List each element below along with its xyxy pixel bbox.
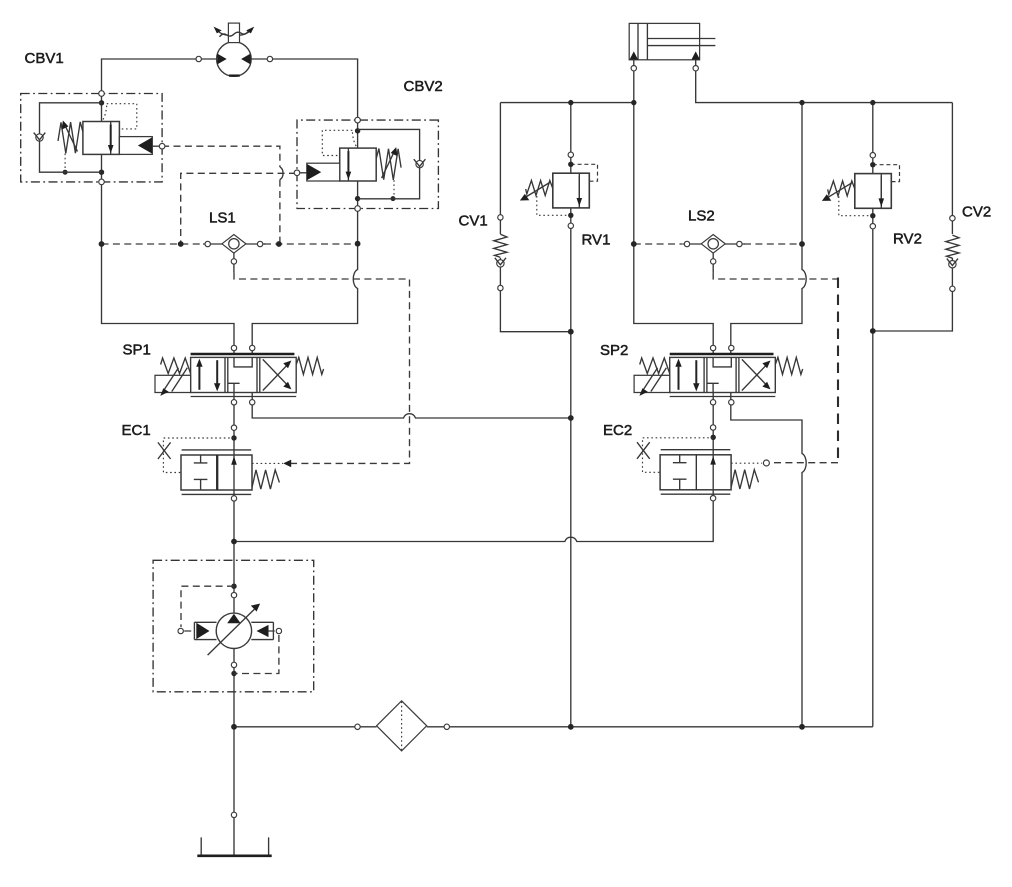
RV1 port circle bottom <box>568 223 573 228</box>
node bottom bus SP2 tank tee <box>799 724 805 730</box>
motor M1 circle <box>217 42 252 77</box>
CV1 port circle top <box>498 215 503 220</box>
CBV1 spring pilot dotted <box>64 154 66 173</box>
node CBV1 spring pilot <box>63 170 68 175</box>
motor port circle right <box>267 56 272 61</box>
node CBV2 spring pilot <box>391 196 396 201</box>
SP2 solenoid box <box>634 375 670 392</box>
cylinder piston <box>638 23 647 59</box>
SP1 right box X arrows <box>263 359 289 390</box>
node LS2 right <box>799 241 805 247</box>
CV2 seat <box>947 259 958 266</box>
EC1 body <box>181 455 252 490</box>
CV2 port circle top <box>950 216 955 221</box>
filter port circle right <box>444 724 449 729</box>
pilot LS2 output horizontal <box>713 273 838 279</box>
CBV1 spring adjust arrow <box>65 126 77 152</box>
CBV2 port circle bottom <box>355 206 361 212</box>
LS2 port circle right <box>737 241 742 246</box>
wire SP1 B-port tank line to RV1 line (hop up over dashed x409.5) <box>252 393 571 419</box>
RV2 arrow <box>880 176 882 199</box>
LS2 port circle left <box>684 241 689 246</box>
RV1 arrow <box>578 176 580 199</box>
motor rotation arrow right <box>240 31 250 35</box>
CBV2 enclosure dash-dot box <box>297 120 438 208</box>
EC2 pilot dotted right <box>731 462 762 464</box>
SP1 port circle B top <box>250 345 255 350</box>
svg-text:RV2: RV2 <box>893 231 922 248</box>
RV1 body <box>553 173 590 208</box>
svg-text:CV1: CV1 <box>459 213 488 230</box>
EC2 flow arrow head <box>710 456 716 465</box>
SP2 port circle B bottom <box>729 400 734 405</box>
RV2 divider <box>880 174 882 209</box>
pump variable arrow <box>208 609 255 655</box>
node LS1 right on B-line <box>355 241 361 247</box>
CBV1 pilot triangle <box>138 137 152 153</box>
LS1 diamond <box>222 235 246 254</box>
node EC1 pilot tap <box>231 435 236 440</box>
svg-text:CV2: CV2 <box>962 204 991 221</box>
wire left cylinder bus <box>500 102 633 104</box>
filter diamond <box>377 701 427 751</box>
wire bottom tank bus with filter <box>234 726 873 728</box>
pilot LS2 output heavy dashed vertical <box>837 278 839 463</box>
wire SP2 B-port tank line down to bottom bus (hop right over dashed y463) <box>731 393 806 727</box>
CBV1 port circle pilot <box>159 143 165 149</box>
RV1 pilot dotted left <box>537 196 568 215</box>
SP1 solenoid slashes <box>163 368 187 392</box>
SP2 body <box>670 357 776 392</box>
SP1 left box down arrow <box>216 360 218 385</box>
svg-text:RV1: RV1 <box>582 232 611 249</box>
CBV1 spring <box>58 122 83 153</box>
CBV2 check seat <box>414 159 426 166</box>
LS1 ball <box>229 239 239 249</box>
CV1 ball <box>497 260 504 267</box>
EC1 pilot dotted right <box>252 462 283 464</box>
RV2 node top <box>870 162 875 167</box>
node right bus RV2 tee <box>870 100 875 105</box>
RV1 node top <box>568 162 573 167</box>
CBV1 port circle top <box>99 91 105 97</box>
EC1 divider <box>216 455 218 490</box>
wire SP1 A-port down through EC1 and pump to tank <box>233 393 235 856</box>
pump left actuator triangle <box>196 623 209 639</box>
EC2 port circle top <box>710 425 715 430</box>
CBV2 spring <box>376 149 401 180</box>
pump outlet triangle <box>227 614 240 624</box>
pilot LS1 dashed line <box>102 243 358 245</box>
CBV1 pilot stub <box>152 145 162 147</box>
node left bus cylinder tee <box>631 100 636 105</box>
motor port circle left <box>196 56 201 61</box>
node LS2 left <box>631 241 637 247</box>
RV1 spring adjust arrow <box>525 182 551 198</box>
node CBV2 upper branch <box>355 128 360 133</box>
node LS1 CBV2 pilot tee <box>178 241 184 247</box>
svg-text:EC2: EC2 <box>603 422 632 439</box>
CBV2 valve body <box>340 148 377 181</box>
LS1 port circle bottom <box>231 259 236 264</box>
node CBV1 lower branch <box>99 170 104 175</box>
node LS1 left on A-line <box>99 241 105 247</box>
EC1 orifice X <box>158 442 171 459</box>
CV2 port circle bottom <box>950 286 955 291</box>
LS2 port circle bottom <box>711 259 716 264</box>
RV2 node bottom <box>870 213 875 218</box>
CBV1 valve arrow <box>110 125 112 147</box>
wire RV2 vertical line <box>872 103 874 727</box>
SP2 dividers <box>704 357 739 392</box>
LS1 port circle left <box>205 241 210 246</box>
CBV1 check seat <box>34 133 46 140</box>
SP1 body <box>191 357 297 392</box>
SP2 port circle A bottom <box>710 400 715 405</box>
svg-text:CBV1: CBV1 <box>25 50 64 67</box>
SP2 left box up arrow <box>678 365 680 390</box>
LS2 stubs <box>682 244 745 273</box>
node CBV2 lower branch <box>355 196 360 201</box>
RV2 spring <box>828 181 855 196</box>
pump circle <box>216 613 251 648</box>
SP2 solenoid slashes <box>642 368 666 392</box>
SP2 top thick bar <box>670 353 774 356</box>
cylinder port arrow left <box>630 51 638 59</box>
pump right actuator box <box>251 622 273 639</box>
node CV1 to RV1 line <box>568 329 574 335</box>
node EC2 pilot tap <box>711 435 716 440</box>
EC2 divider <box>695 455 697 490</box>
SP1 port circle B bottom <box>250 400 255 405</box>
SP2 left box down arrow <box>695 360 697 385</box>
CBV2 bypass branch wire <box>358 129 420 198</box>
CBV2 pilot actuator box <box>307 163 340 181</box>
node right bus SP2B tee <box>799 100 804 105</box>
SP1 top thick bar <box>191 353 295 356</box>
SP1 port circle A bottom <box>231 400 236 405</box>
tank walls <box>201 837 268 855</box>
pump port circle bottom <box>231 662 236 667</box>
CBV1 valve divider <box>110 122 112 155</box>
pump left actuator box <box>194 622 216 639</box>
svg-text:LS1: LS1 <box>209 210 236 227</box>
EC2 body <box>660 455 731 490</box>
wire RV1 vertical line bus to bottom bus <box>570 103 572 727</box>
EC1 spring <box>252 470 279 489</box>
CBV2 internal pilot dotted <box>322 130 356 155</box>
CBV2 valve arrow <box>347 151 349 173</box>
node bottom bus pump tee <box>231 724 237 730</box>
cylinder port circle right <box>693 66 698 71</box>
EC1 overlines <box>182 450 252 495</box>
CBV2 valve divider <box>347 148 349 181</box>
SP1 bottom thin bar <box>191 396 297 398</box>
CBV2 pilot stub <box>297 172 307 174</box>
SP1 left spring <box>161 358 191 374</box>
motor drain mark <box>229 74 240 76</box>
svg-text:LS2: LS2 <box>688 208 715 225</box>
cylinder body <box>629 23 699 59</box>
wire cylinder rod-port right bus <box>696 60 953 103</box>
CBV2 port circle pilot <box>294 170 300 176</box>
RV2 pilot dashes right <box>873 165 900 182</box>
pump right actuator triangle <box>257 625 269 637</box>
LS2 diamond <box>701 235 725 254</box>
CBV1 port circle bottom <box>99 179 105 185</box>
node pump top pilot <box>231 584 236 589</box>
EC2 blocked ports <box>673 455 687 490</box>
SP1 centre blocked port <box>228 383 239 392</box>
SP2 bottom thin bar <box>670 396 776 398</box>
SP2 port circle B top <box>729 345 734 350</box>
CBV1 enclosure dash-dot box <box>21 94 162 182</box>
EC2 pilot dotted left <box>643 438 714 473</box>
svg-text:SP1: SP1 <box>123 342 151 359</box>
node CBV1 upper branch <box>99 100 104 105</box>
tank port circle <box>231 812 236 817</box>
wire motor-right to CBV2 to SP1 port B feed (hop left at y279) <box>251 59 357 354</box>
wire motor-left to CBV1 to SP1 port A feed <box>102 59 235 354</box>
EC1 port circle bottom <box>231 496 236 501</box>
CBV1 pilot actuator box <box>119 137 152 155</box>
RV2 port circle bottom <box>870 224 875 229</box>
pilot CBV1 from SP1-B line (hop right over y173.3) <box>162 146 280 244</box>
SP2 centre bridge <box>713 357 731 367</box>
SP1 port circle A top <box>231 345 236 350</box>
node EC bus left <box>231 539 237 545</box>
node left bus RV1 tee <box>568 100 573 105</box>
motor shaft wave <box>220 31 249 37</box>
pump enclosure dash-dot box <box>153 560 314 692</box>
node SP1 tank tee <box>568 415 574 421</box>
SP2 port circle A top <box>710 345 715 350</box>
RV1 spring <box>526 181 553 196</box>
RV2 spring adjust arrow <box>827 182 853 198</box>
RV1 divider <box>578 173 580 208</box>
CBV1 valve body <box>83 122 120 155</box>
SP1 right spring <box>296 357 323 374</box>
tank bottom <box>197 854 271 857</box>
EC2 overlines <box>661 450 731 495</box>
EC2 orifice X <box>637 442 650 459</box>
pilot to EC2 spring side <box>770 462 838 464</box>
pilot LS1 output to EC1 spring side <box>234 273 410 464</box>
wire SP2 A-port down through EC2 then left along EC bus to pump line (hop up over RV1 line) <box>234 393 713 542</box>
RV1 node bottom <box>568 213 573 218</box>
CV1 spring <box>494 234 507 257</box>
pump port circle top <box>231 592 236 597</box>
CBV1 check ball <box>36 134 43 141</box>
CBV2 port circle top <box>355 117 361 123</box>
SP2 solenoid arrow head <box>639 388 647 396</box>
wire cylinder cap-port down to SP2 port A feed <box>634 60 713 354</box>
motor left triangle <box>217 54 226 65</box>
SP1 solenoid arrow head <box>160 388 168 396</box>
CV1 seat <box>495 258 506 265</box>
SP2 right box X arrows <box>742 359 768 390</box>
pilot LS2 dashed line <box>634 243 802 245</box>
SP2 left spring <box>640 358 670 374</box>
motor shaft <box>228 23 239 42</box>
pump pilot dashed top-left <box>181 586 234 627</box>
RV1 pilot dashes right <box>571 164 598 181</box>
pump pilot stubs <box>184 630 275 632</box>
LS1 port circle right <box>257 241 262 246</box>
pump pilot dashed bottom-right <box>234 635 279 674</box>
EC2 spring <box>731 470 758 489</box>
svg-text:CBV2: CBV2 <box>404 78 443 95</box>
RV1 port circle top <box>568 152 573 157</box>
CBV2 check ball <box>416 160 423 167</box>
EC1 flow arrow head <box>231 456 237 465</box>
LS1 stubs <box>203 244 266 273</box>
wire CV1 branch <box>500 103 570 332</box>
wire rod-bus down to SP2 port B feed (hop right at y279) <box>731 103 806 354</box>
pump port circle left pilot <box>178 628 183 633</box>
filter element dotted <box>401 702 403 751</box>
CV2 spring <box>946 235 959 258</box>
CBV1 bypass branch wire <box>40 103 102 172</box>
CBV1 internal pilot dotted <box>103 104 137 129</box>
EC1 port circle top <box>231 425 236 430</box>
cylinder port arrow right <box>692 51 700 59</box>
EC2 port circle bottom <box>710 495 715 500</box>
RV2 pilot dotted left <box>839 196 870 215</box>
svg-text:SP2: SP2 <box>600 342 628 359</box>
filter port circle left <box>355 724 360 729</box>
node bottom bus RV1 tee <box>568 724 574 730</box>
LS2 ball <box>708 239 718 249</box>
svg-text:EC1: EC1 <box>122 422 151 439</box>
cylinder port circle left <box>631 66 636 71</box>
SP1 solenoid box <box>155 375 191 392</box>
SP2 right spring <box>775 357 802 374</box>
node CV2 to RV2 line <box>870 328 876 334</box>
SP1 left box up arrow <box>198 365 200 390</box>
EC1 pilot arrow marker <box>283 460 291 468</box>
motor rotation arrow left <box>218 31 228 35</box>
SP1 dividers <box>225 357 260 392</box>
node pump bottom pilot <box>231 671 236 676</box>
EC1 blocked ports <box>194 455 208 490</box>
node LS1 CBV1 pilot tee <box>276 241 282 247</box>
EC1 pilot dotted left <box>163 438 234 473</box>
CV1 port circle bottom <box>498 285 503 290</box>
CBV2 spring adjust arrow <box>382 153 394 179</box>
pilot CBV2 from SP1-A line <box>181 173 296 244</box>
motor right triangle <box>241 54 250 65</box>
CBV2 pilot triangle <box>307 164 321 180</box>
wire CV2 branch <box>873 103 953 331</box>
CV2 ball <box>949 260 956 267</box>
SP2 centre blocked port <box>708 383 719 392</box>
pump port circle right pilot <box>276 628 281 633</box>
SP1 centre bridge <box>234 357 252 367</box>
cylinder rod <box>647 39 715 46</box>
CBV2 spring pilot dotted <box>393 180 395 199</box>
RV2 port circle top <box>870 153 875 158</box>
EC2 pilot circle marker <box>763 460 769 466</box>
RV2 body <box>855 174 892 209</box>
